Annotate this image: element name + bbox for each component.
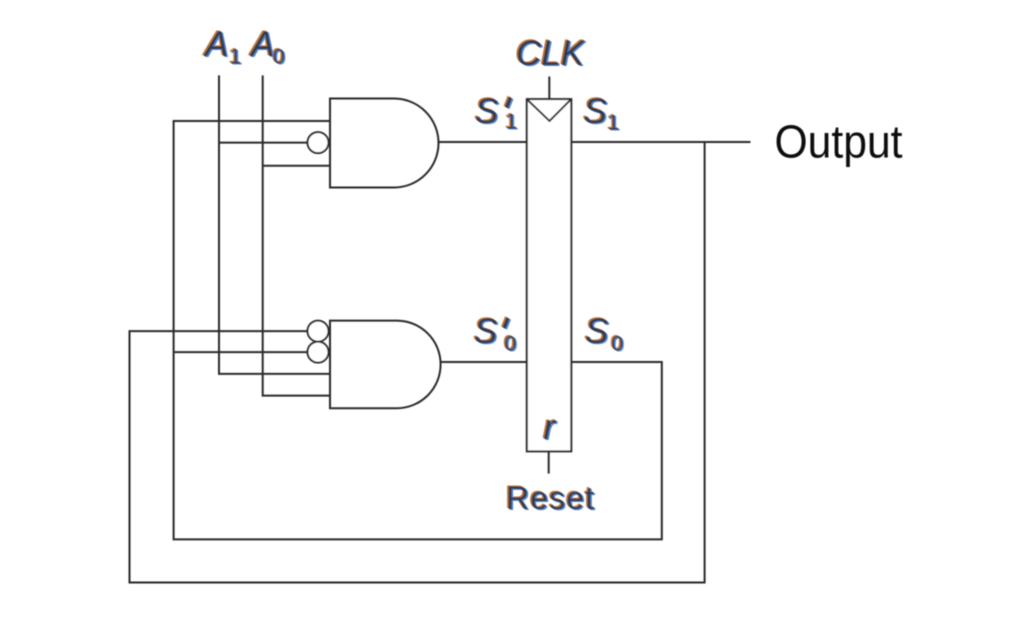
svg-text:S: S — [474, 312, 497, 351]
wire A0 vertical — [263, 75, 330, 395]
and-gate lower — [330, 321, 441, 409]
svg-text:r: r — [544, 408, 557, 447]
wire A0 to upper gate bottom input — [263, 165, 330, 167]
wire S0 feedback branch to lower gate inverted input — [174, 351, 307, 353]
wire A1 vertical — [219, 75, 330, 374]
svg-text:A: A — [203, 25, 228, 64]
svg-text:1: 1 — [608, 112, 620, 135]
register (state flip-flops) — [527, 99, 572, 451]
wire lower gate output to register S'0 — [441, 361, 527, 363]
inverter bubble lower gate input 1 — [308, 321, 329, 342]
svg-text:S: S — [584, 92, 607, 131]
label Reset — [506, 480, 594, 516]
svg-text:S: S — [585, 312, 608, 351]
svg-text:1: 1 — [506, 111, 518, 134]
wire CLK stub — [548, 77, 550, 100]
label S'0 — [474, 312, 516, 356]
wire upper gate output to register S'1 — [439, 141, 528, 143]
svg-text:0: 0 — [505, 333, 517, 356]
label A0 — [249, 25, 285, 69]
svg-text:S: S — [475, 92, 498, 131]
label A1 — [203, 25, 241, 69]
svg-text:CLK: CLK — [516, 34, 586, 73]
label CLK — [516, 34, 586, 73]
inverter bubble upper gate — [308, 132, 329, 153]
svg-text:A: A — [249, 25, 274, 64]
svg-text:Reset: Reset — [506, 480, 594, 516]
clock edge triangle — [528, 100, 571, 121]
and-gate upper — [330, 99, 439, 188]
wire register S1 output to Output — [571, 141, 750, 143]
svg-text:Output: Output — [775, 116, 903, 168]
svg-text:0: 0 — [273, 46, 285, 69]
wire A1 to upper gate inverted input — [219, 142, 307, 144]
wire S1 feedback (outer loop) — [130, 142, 705, 583]
svg-text:1: 1 — [230, 46, 242, 69]
label S0 — [585, 312, 623, 356]
label Output — [775, 116, 903, 168]
svg-text:0: 0 — [612, 333, 624, 356]
label S1 — [584, 92, 620, 135]
wire Reset stub — [548, 451, 550, 473]
label S'1 — [475, 92, 517, 134]
inverter bubble lower gate input 2 — [308, 342, 329, 363]
label r (reset pin) — [544, 408, 557, 447]
wire S0 feedback (inner loop) — [174, 121, 662, 539]
